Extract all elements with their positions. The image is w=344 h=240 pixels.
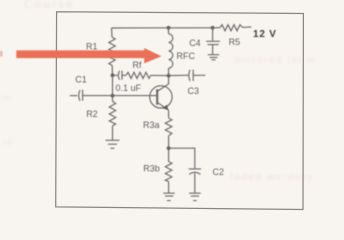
svg-text:12 V: 12 V [253,29,277,40]
resistor R5 [220,25,243,31]
node emitter divider junction [167,146,171,150]
wire divider mid [112,75,114,95]
resistor R3b [165,162,172,182]
wire C1 to base node [83,95,113,97]
wire top rail [112,27,213,29]
resistor R2 [109,102,115,126]
wire to C2 [169,148,195,168]
svg-text:Rf: Rf [133,60,142,70]
wire emitter to R3a [168,110,170,118]
capacitor Rf-series 0.1uF [113,71,127,80]
bleed-through text top-left (Course) [24,0,75,11]
wire R3a bottom [168,136,170,148]
wire R1 top [111,28,114,37]
svg-text:RFC: RFC [177,51,196,61]
svg-text:R2: R2 [86,109,98,119]
resistor R3a [165,118,172,136]
annotation red arrow bleed blob at left edge [0,51,3,57]
ground under R3b [163,193,175,200]
wire R5 left [213,27,220,29]
wire R2 top [112,96,114,102]
svg-text:R1: R1 [86,42,98,52]
wire RFC top [168,28,170,34]
wire R2 bottom [112,126,114,141]
svg-text:C1: C1 [75,75,87,85]
bleed-through text right margin [234,55,316,66]
svg-text:0.1 uF: 0.1 uF [116,83,142,93]
wire C4 top [212,28,214,41]
capacitor C4 [206,41,220,54]
svg-text:R5: R5 [229,37,241,47]
svg-text:R3a: R3a [143,120,160,130]
bleed-through text bottom-right [230,172,314,183]
transistor Q1 [150,86,172,108]
svg-text:Course: Course [24,0,75,11]
ground under C2 [189,193,201,200]
node supply junction [211,26,215,30]
ground under C4 [208,55,219,60]
bleed-through marks left margin [2,92,12,147]
resistor R1 [109,37,115,66]
inductor RFC [169,34,173,68]
svg-text:R3b: R3b [143,164,160,174]
wire collector to C3 [169,74,189,76]
wire RFC bottom [168,68,170,75]
svg-text:uo: uo [2,92,12,102]
svg-text:C3: C3 [188,86,200,96]
annotation red arrow [16,48,161,63]
wire base [113,95,158,97]
svg-text:C4: C4 [189,38,201,48]
svg-text:faded wordsxy: faded wordsxy [230,172,314,183]
node top-rail RFC junction [167,26,171,30]
capacitor C3 [189,70,206,81]
wire R3b bottom [168,182,170,194]
capacitor C2 [189,169,202,193]
node base junction [111,94,115,98]
wire Rf to collector node [151,74,169,76]
wire R1 bottom [111,66,113,76]
wire C1 input [70,95,77,97]
svg-text:od: od [2,137,12,147]
wire R3b top [168,148,170,161]
node base-divider junction [111,73,115,77]
svg-text:C2: C2 [213,167,225,177]
wire 12V lead [243,26,252,29]
ground under R2 [106,140,120,148]
capacitor C1 [79,90,83,101]
schematic frame box [56,12,304,210]
resistor Rf [126,72,151,78]
node collector junction [167,74,171,78]
